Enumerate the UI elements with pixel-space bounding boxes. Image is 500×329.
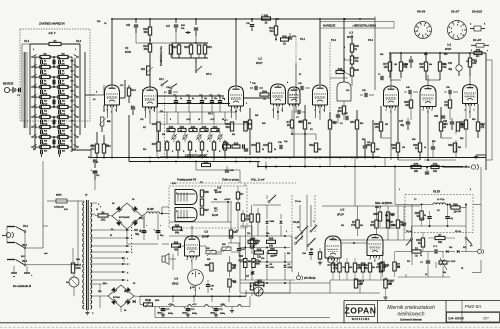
capacitor C32	[289, 33, 291, 37]
resistor R95	[210, 263, 213, 271]
svg-text:P4-1: P4-1	[300, 38, 306, 41]
svg-text:KAL, V, mV: KAL, V, mV	[251, 178, 265, 182]
svg-text:ZAKRES NAPIĘCIA: ZAKRES NAPIĘCIA	[38, 22, 65, 26]
resistor R65	[267, 240, 276, 243]
svg-text:+: +	[160, 225, 161, 227]
svg-text:7: 7	[243, 90, 244, 92]
svg-text:R10: R10	[44, 101, 47, 103]
wire verticals misc top	[90, 150, 92, 158]
svg-text:85A2: 85A2	[172, 282, 179, 286]
resistor ladder row 6	[40, 105, 50, 108]
coupling capacitor C40	[300, 86, 302, 90]
tube V7 mid right	[420, 86, 436, 107]
resistor R107	[71, 263, 74, 273]
svg-text:0,1µ: 0,1µ	[450, 218, 454, 220]
resistor R67b	[244, 259, 247, 268]
svg-text:R13: R13	[61, 103, 66, 106]
capacitor C60	[226, 166, 228, 169]
svg-text:+: +	[146, 225, 147, 227]
potentiometer L-pot	[442, 252, 444, 259]
svg-text:4000µ: 4000µ	[220, 312, 225, 315]
resistor R?f	[393, 262, 396, 271]
svg-text:R4: R4	[44, 70, 46, 73]
dashed box regulator	[169, 186, 247, 228]
svg-text:R11: R11	[62, 101, 65, 103]
svg-text:10Ω: 10Ω	[101, 218, 106, 221]
extra verticals bottom	[213, 158, 215, 162]
compensation extra resistors	[169, 45, 172, 54]
svg-text:L1 C?2µ: L1 C?2µ	[437, 199, 444, 201]
resistor R79 on heater line	[474, 51, 482, 54]
svg-text:5: 5	[199, 288, 200, 290]
regulator tubes anode bars	[177, 193, 195, 195]
svg-text:5: 5	[337, 261, 338, 263]
svg-text:6F1P: 6F1P	[347, 35, 353, 39]
hop bus	[152, 306, 171, 308]
svg-text:: NIEKSZTAŁCENIA: : NIEKSZTAŁCENIA	[352, 24, 376, 28]
svg-text:1M: 1M	[405, 104, 408, 107]
svg-text:32k: 32k	[216, 130, 219, 132]
svg-text:R17: R17	[62, 131, 65, 133]
resistor column R46 R47 R48	[350, 44, 353, 52]
svg-text:24k: 24k	[233, 265, 236, 268]
svg-text:100k: 100k	[76, 259, 80, 261]
svg-text:R85: R85	[214, 190, 217, 192]
svg-text:D8+D15: D8+D15	[472, 10, 482, 14]
svg-text:2: 2	[228, 90, 229, 92]
svg-text:R52: R52	[318, 149, 321, 151]
resistor ladder row 1	[40, 55, 50, 58]
svg-text:5: 5	[116, 110, 117, 112]
svg-text:64k: 64k	[214, 198, 217, 201]
svg-text:C10: C10	[466, 61, 469, 63]
wire y 222 under box	[169, 221, 231, 223]
battery terminals	[11, 272, 17, 274]
resistor under V4b	[290, 120, 293, 128]
svg-text:5: 5	[379, 259, 380, 261]
wire x355 drop	[354, 158, 356, 207]
resistor R106 pot	[144, 303, 153, 306]
resistor R62	[400, 53, 402, 62]
svg-text:Schemat ideowy: Schemat ideowy	[400, 318, 422, 322]
svg-text:D410: D410	[270, 266, 274, 269]
capacitor C?a filter	[427, 216, 431, 218]
switch column verticals bottom	[299, 205, 301, 231]
diode D15	[457, 250, 459, 253]
svg-text:4: 4	[423, 109, 424, 112]
svg-text:R43: R43	[262, 122, 265, 125]
svg-text:R64: R64	[251, 238, 256, 241]
svg-text:R15: R15	[61, 113, 66, 116]
svg-text:64k: 64k	[180, 229, 183, 232]
svg-text:R39: R39	[234, 142, 239, 145]
resistor ladder row 10	[40, 145, 50, 148]
capacitor ladder row 3	[40, 80, 42, 84]
svg-text:4: 4	[231, 109, 232, 112]
capacitor C16	[194, 27, 198, 29]
svg-text:R16: R16	[97, 21, 100, 23]
wire v9 to speaker	[169, 258, 176, 260]
resistor R38 R39	[223, 145, 231, 148]
svg-text:PP-1: PP-1	[206, 73, 212, 76]
capacitor ladder row 10	[40, 150, 42, 154]
resistor ladder row 7	[40, 115, 50, 118]
capacitor ladder row 5	[40, 100, 42, 104]
resistor R36	[230, 122, 233, 131]
wire y134 segment	[292, 133, 316, 135]
svg-text:R106: R106	[145, 299, 151, 302]
svg-text:8: 8	[424, 25, 425, 27]
svg-text:-35?: -35?	[482, 317, 489, 321]
wire +HT top bus	[112, 18, 375, 20]
svg-text:R87: R87	[204, 209, 209, 212]
more wires net ties	[261, 14, 263, 19]
svg-text:R70: R70	[444, 54, 447, 56]
svg-text:50µ: 50µ	[88, 157, 91, 159]
svg-text:c: c	[131, 243, 132, 245]
svg-text:C52: C52	[432, 141, 435, 143]
capacitor C7	[93, 159, 97, 161]
ground right	[476, 154, 486, 156]
svg-text:D7: D7	[250, 286, 252, 288]
capacitor C18	[93, 170, 98, 172]
svg-text:9: 9	[460, 26, 461, 28]
coupling capacitor C19	[168, 90, 170, 94]
svg-text:4000µ: 4000µ	[192, 312, 197, 315]
svg-text:R53: R53	[333, 123, 336, 125]
resistor R67	[425, 53, 427, 62]
svg-text:+200V: +200V	[224, 199, 231, 201]
svg-text:11: 11	[72, 149, 74, 151]
svg-text:R7: R7	[62, 81, 64, 83]
resistor R12b	[469, 53, 471, 58]
svg-text:R44: R44	[262, 90, 267, 93]
svg-text:R54: R54	[350, 121, 355, 124]
resistor R49 R50	[336, 70, 344, 73]
svg-text:390: 390	[71, 100, 74, 102]
svg-text:R66: R66	[424, 54, 427, 56]
svg-text:6k8: 6k8	[71, 60, 74, 62]
svg-text:R14: R14	[131, 89, 136, 92]
svg-text:ZOPAN: ZOPAN	[345, 306, 377, 316]
svg-text:WEJŚCIE: WEJŚCIE	[3, 83, 14, 86]
svg-text:1: 1	[111, 112, 112, 114]
resistors beside V6	[200, 190, 203, 197]
resistors above V5 pair	[356, 220, 359, 228]
svg-text:R69: R69	[412, 139, 415, 141]
svg-text:2: 2	[420, 90, 421, 92]
svg-text:10k: 10k	[106, 145, 109, 147]
svg-text:R88: R88	[385, 215, 388, 217]
wire V8 V9 connections	[191, 256, 193, 270]
wire bottom right net	[420, 276, 450, 278]
svg-text:D1: D1	[110, 235, 112, 237]
svg-text:1k5: 1k5	[394, 64, 397, 66]
svg-text:P1-1: P1-1	[24, 40, 30, 43]
svg-text:R33: R33	[202, 126, 207, 129]
potentiometer R93	[222, 247, 231, 250]
svg-text:R14: R14	[43, 113, 48, 116]
svg-text:R95: R95	[207, 259, 210, 261]
svg-text:R11: R11	[61, 93, 66, 96]
capacitor ladder row 4	[40, 90, 42, 94]
svg-text:R45: R45	[243, 121, 248, 124]
svg-text:10k: 10k	[360, 283, 363, 285]
svg-text:D410: D410	[288, 266, 292, 269]
coupling capacitor C45	[364, 93, 366, 97]
capacitor C48	[441, 115, 445, 117]
resistor R37	[244, 122, 247, 131]
svg-text:R42: R42	[264, 14, 269, 17]
capacitor C?s	[426, 260, 430, 262]
svg-text:6F4P: 6F4P	[445, 47, 451, 51]
svg-text:+C72: +C72	[192, 304, 196, 306]
svg-text:R15: R15	[62, 121, 65, 123]
svg-text:6F40: 6F40	[125, 50, 131, 54]
svg-text:2: 2	[286, 231, 287, 233]
svg-text:27k: 27k	[341, 225, 344, 227]
svg-text:R89: R89	[391, 215, 394, 217]
svg-text:5: 5	[417, 31, 418, 33]
svg-text:7: 7	[332, 263, 333, 265]
diode D7 DM13	[251, 271, 254, 274]
svg-text:1: 1	[33, 49, 34, 51]
switch levers P5	[295, 243, 297, 245]
transformer taps	[91, 202, 98, 204]
resistor R102b	[250, 283, 253, 290]
svg-text:6F1P: 6F1P	[256, 61, 262, 65]
svg-text:D2: D2	[135, 221, 137, 223]
resistor R42 on bus	[262, 17, 271, 20]
svg-text:270: 270	[376, 266, 381, 269]
svg-text:D9: D9	[133, 283, 135, 285]
svg-text:Tylko w przyp.: Tylko w przyp.	[222, 178, 240, 182]
svg-text:62k: 62k	[226, 126, 231, 129]
junction dots feedback	[257, 166, 259, 168]
left col vertical x24 30	[23, 52, 25, 128]
extra wire right col x443	[427, 270, 429, 277]
svg-text:5: 5	[474, 110, 475, 112]
svg-text:51Ω: 51Ω	[98, 291, 102, 293]
regulator box internals	[236, 192, 239, 199]
svg-text:160: 160	[392, 147, 397, 150]
svg-text:R21: R21	[62, 151, 65, 153]
svg-text:V4: V4	[447, 43, 451, 47]
svg-text:P5: P5	[461, 268, 463, 270]
diode D8 package	[474, 26, 481, 31]
svg-text:R95: R95	[205, 264, 210, 267]
resistor R75b	[412, 250, 421, 253]
resistor under V3b arc	[342, 106, 345, 114]
svg-text:4: 4	[419, 33, 420, 36]
svg-text:6: 6	[250, 82, 251, 84]
resistor ladder row 9	[40, 135, 50, 138]
tube V4b	[288, 87, 300, 104]
svg-text:50: 50	[222, 119, 224, 121]
svg-text:R26: R26	[162, 134, 165, 136]
svg-text:6: 6	[176, 211, 177, 213]
diode D408 pair	[265, 221, 268, 224]
tube V5c right	[367, 235, 383, 256]
svg-text:R5: R5	[62, 71, 64, 73]
svg-text:R81: R81	[458, 147, 461, 149]
svg-text:P3: P3	[297, 227, 299, 229]
tube V8 right	[463, 85, 478, 104]
svg-text:30k: 30k	[443, 272, 446, 274]
tube V3	[229, 86, 244, 106]
svg-text:3k: 3k	[425, 274, 427, 276]
svg-text:1: 1	[427, 31, 428, 33]
resistor R20	[149, 19, 151, 27]
wire transformer primary top	[78, 200, 84, 202]
wire tube drops to rail	[107, 107, 109, 118]
coupling capacitor C50	[448, 90, 450, 94]
svg-text:mV, V: mV, V	[49, 31, 56, 35]
svg-text:1k4: 1k4	[458, 210, 461, 213]
svg-text:R20: R20	[43, 143, 48, 146]
wire top rail y157	[91, 157, 486, 159]
junction dots mid	[277, 111, 279, 113]
svg-text:D9: D9	[124, 310, 126, 312]
svg-text:7: 7	[435, 90, 436, 92]
transformer ground	[87, 309, 89, 311]
svg-text:62k: 62k	[144, 31, 149, 34]
svg-text:R23: R23	[184, 46, 189, 49]
resistors below V5c	[368, 263, 371, 272]
resistor R89	[386, 212, 389, 221]
small circle on V5	[328, 256, 335, 263]
svg-text:R48: R48	[354, 69, 359, 72]
svg-text:2: 2	[462, 90, 463, 92]
svg-text:2: 2	[383, 90, 384, 92]
wire across	[244, 97, 271, 99]
resistor R84 filter	[420, 211, 423, 220]
resistor R1	[49, 42, 61, 45]
capacitor ladder row 1	[40, 60, 42, 64]
svg-text:R18: R18	[43, 133, 48, 136]
meter M	[254, 287, 263, 296]
svg-text:R21: R21	[61, 143, 66, 146]
resistor R77	[389, 53, 391, 62]
svg-text:7: 7	[191, 261, 192, 263]
diode column above meter block	[250, 214, 253, 222]
svg-text:5k: 5k	[424, 215, 426, 217]
svg-text:30k: 30k	[438, 241, 443, 244]
svg-text:V8+V9: V8+V9	[417, 10, 426, 14]
wire hline 206	[322, 205, 420, 207]
svg-text:Miernik zniekształceń: Miernik zniekształceń	[387, 305, 435, 311]
svg-text:R19: R19	[61, 133, 66, 136]
resistor R66	[268, 250, 277, 253]
svg-text:47k: 47k	[91, 144, 94, 147]
oscillator resistor row R30-R34	[160, 123, 246, 125]
switch P2-1	[161, 84, 163, 86]
filter extra dots	[421, 204, 423, 206]
resistor R94	[228, 279, 231, 287]
wire zigzag to V3 grid	[344, 59, 352, 61]
svg-text:4: 4	[187, 258, 188, 261]
resistor R73b	[431, 165, 439, 168]
oscillator capacitor bank C31-C39	[158, 103, 230, 105]
svg-text:R87: R87	[214, 208, 217, 210]
svg-text:Przełączanie P2: Przełączanie P2	[177, 178, 197, 182]
svg-text:R38: R38	[224, 142, 229, 145]
svg-text:R85: R85	[204, 191, 209, 194]
svg-text:+C25: +C25	[186, 119, 190, 121]
svg-text:4000µ: 4000µ	[168, 312, 173, 315]
svg-text:845: 845	[287, 252, 290, 255]
svg-text:5: 5	[324, 110, 325, 112]
svg-text:R54: R54	[360, 122, 363, 125]
oscillator lower resistor row	[166, 140, 168, 142]
svg-text:R3: R3	[62, 61, 64, 63]
capacitor C38	[279, 145, 281, 149]
switch P5 contacts	[411, 238, 413, 240]
svg-text:200: 200	[71, 110, 74, 112]
svg-text:R50: R50	[299, 121, 302, 123]
svg-text:1k5: 1k5	[384, 66, 389, 69]
svg-text:1: 1	[313, 221, 314, 223]
capacitor C57	[402, 222, 406, 224]
svg-text:R82: R82	[460, 138, 463, 140]
svg-text:6,3: 6,3	[93, 99, 96, 101]
svg-text:C?: C?	[299, 59, 301, 61]
capacitor C36 coupling	[254, 86, 256, 90]
svg-text:7: 7	[420, 25, 421, 27]
resistor R86	[172, 244, 181, 247]
svg-text:C?: C?	[378, 74, 380, 76]
more dots on feedback	[265, 166, 267, 168]
svg-text:R61: R61	[380, 54, 383, 56]
wire V2 anode to bus	[149, 80, 151, 87]
speaker symbol	[162, 256, 165, 262]
tube V2a	[143, 87, 158, 107]
grid resistor R59	[448, 100, 451, 108]
capacitor C61	[143, 214, 145, 229]
svg-text:7: 7	[327, 90, 328, 92]
svg-text:FILTR: FILTR	[433, 190, 440, 194]
svg-text:C13: C13	[120, 85, 123, 87]
svg-text:k: k	[471, 50, 472, 52]
capacitor C30	[251, 19, 253, 22]
dashed box ZAKRES NAPIECIA	[20, 29, 90, 121]
ground bottom mid	[231, 307, 233, 310]
svg-text:8: 8	[170, 119, 171, 121]
svg-text:6: 6	[287, 82, 288, 84]
anode feeds right tubes	[390, 53, 392, 86]
wires regulator	[162, 206, 169, 208]
diode D14	[446, 250, 448, 253]
svg-text:C23: C23	[140, 119, 143, 121]
svg-text:70k: 70k	[442, 66, 447, 69]
svg-text:D1: D1	[111, 229, 113, 231]
svg-text:R92 ?: R92 ?	[375, 207, 382, 209]
resistor R108	[248, 240, 258, 243]
svg-text:R90: R90	[453, 203, 458, 206]
svg-text:0,1: 0,1	[131, 106, 134, 108]
wire ladder to V1 grid	[71, 57, 73, 150]
svg-text:8k: 8k	[192, 130, 194, 132]
ladder mid caps	[52, 60, 54, 64]
capacitor ladder row 6	[40, 110, 42, 114]
switch rotary mid	[301, 231, 303, 233]
svg-text:4: 4	[386, 109, 387, 112]
resistor ladder row 3	[40, 75, 50, 78]
capacitor C42	[345, 116, 347, 120]
svg-text:4: 4	[145, 109, 146, 112]
capacitor C10 circle	[456, 65, 462, 71]
svg-text:1: 1	[390, 112, 391, 114]
